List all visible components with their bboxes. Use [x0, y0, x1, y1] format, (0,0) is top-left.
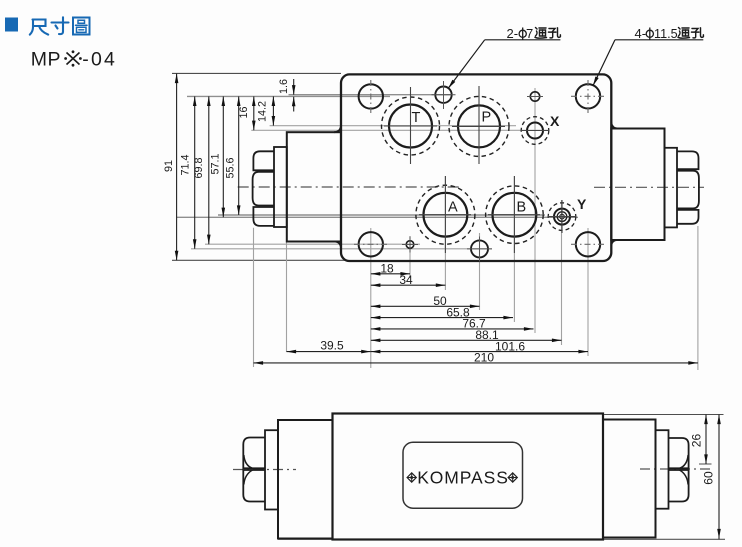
- right washer (side): [656, 430, 669, 509]
- svg-text:1.6: 1.6: [278, 79, 290, 94]
- nameplate diamond left: [407, 473, 416, 482]
- svg-text:50: 50: [433, 294, 447, 308]
- mounting hole bottom-left (φ11.5): [354, 232, 388, 256]
- label 2-φ7 through hole: [448, 26, 560, 89]
- centerline left (dash-dot, top view): [238, 186, 460, 188]
- arrowheads for left dimensions: [175, 74, 296, 261]
- extension lines (vertical, grey) for hole/port columns: [254, 88, 698, 370]
- dimension lines 18 / 34 / 50 / 65.8 / 76.7 / 88.1 / 101.6 / 39.5 / 210: [254, 274, 698, 363]
- dim 18 arrows: [371, 272, 381, 276]
- svg-text:57.1: 57.1: [210, 153, 222, 174]
- KOMPASS nameplate: [403, 442, 523, 508]
- pilot hole top small: [527, 92, 543, 101]
- title blue square marker: [5, 18, 18, 32]
- svg-text:T: T: [412, 110, 421, 126]
- svg-text:MP: MP: [31, 49, 61, 71]
- svg-text:-04: -04: [82, 49, 117, 71]
- label 4-φ11.5 through hole: [593, 26, 704, 86]
- right hex nut (side) band 1: [669, 438, 689, 468]
- dim 210 arrows: [254, 361, 264, 365]
- right hex nut (side) band 2: [669, 470, 689, 502]
- left hex nut band 1: [253, 151, 274, 170]
- model label MP※-04: [31, 49, 117, 71]
- dim 60: [702, 415, 721, 540]
- svg-text:KOMPASS: KOMPASS: [417, 468, 509, 488]
- body-block fillet top-right: [611, 123, 618, 129]
- left hex nut band 3: [253, 207, 274, 226]
- through hole φ7 bottom: [467, 237, 492, 262]
- dim 26: [690, 415, 708, 465]
- dim 50 arrows: [371, 305, 381, 309]
- arrowheads for bottom dimensions: [254, 272, 698, 365]
- svg-text:71.4: 71.4: [180, 154, 192, 175]
- left washer (side): [265, 430, 278, 509]
- centerline left: [233, 469, 296, 471]
- mounting hole top-right (φ11.5): [571, 80, 605, 113]
- port T: [382, 87, 440, 164]
- extension lines (horizontal, grey) for port rows: [177, 95, 578, 249]
- dim 76.7 arrows: [371, 327, 381, 331]
- port X: [521, 113, 560, 144]
- dim 65.8 arrows: [371, 316, 381, 320]
- dim 71.4 arrows: [193, 96, 197, 106]
- left hex chamfer arcs: [244, 455, 253, 485]
- svg-text:55.6: 55.6: [225, 157, 237, 178]
- svg-text:60: 60: [702, 471, 716, 485]
- svg-text:Y: Y: [577, 196, 587, 212]
- left hex nut (side) band 2: [243, 470, 265, 502]
- dim 55.6 arrows: [237, 96, 241, 106]
- dim 16 arrows: [252, 96, 256, 106]
- dim 39.5 arrows: [287, 350, 297, 354]
- dim 14.2 arrows: [272, 96, 276, 106]
- ext line top right: [604, 414, 724, 416]
- main body (side): [333, 414, 604, 540]
- svg-text:16: 16: [238, 106, 250, 118]
- svg-text:7: 7: [526, 26, 533, 41]
- glyph 通: [678, 28, 690, 39]
- svg-text:X: X: [550, 113, 560, 129]
- svg-text:69.8: 69.8: [193, 157, 205, 178]
- left washer plate: [274, 147, 287, 227]
- svg-text:39.5: 39.5: [320, 339, 344, 353]
- svg-text:2-: 2-: [507, 26, 519, 41]
- dim 88.1 arrows: [371, 339, 381, 343]
- mounting hole top-left (φ11.5): [359, 80, 383, 113]
- left solenoid block (side): [278, 420, 333, 539]
- dim 57.1 arrows: [222, 96, 226, 106]
- left hex nut (side) band 1: [243, 438, 265, 469]
- glyph 孔: [692, 28, 704, 38]
- svg-text:P: P: [482, 110, 492, 126]
- reference mark ※ glyph: [64, 50, 82, 66]
- svg-text:B: B: [517, 199, 527, 215]
- right hex nut band 3: [677, 210, 699, 224]
- port P: [449, 86, 509, 164]
- right end block: [611, 129, 664, 241]
- svg-text:4-: 4-: [635, 26, 647, 41]
- svg-text:101.6: 101.6: [495, 339, 525, 353]
- dim 101.6 arrows: [371, 350, 381, 354]
- svg-text:34: 34: [399, 273, 413, 287]
- dim 1.6 arrows: [292, 85, 296, 95]
- left end block: [287, 132, 341, 241]
- title text 尺寸圖 (dimension drawing): [30, 17, 90, 34]
- body-block fillet bottom-right: [611, 240, 618, 246]
- glyph 通: [535, 28, 547, 39]
- nameplate diamond right: [508, 473, 517, 482]
- ext tick for 26: [699, 463, 712, 465]
- dimension lines 91 / 71.4 / 69.8 / 57.1 / 55.6 / 16 / 14.2 / 1.6: [177, 74, 294, 261]
- right washer plate: [665, 148, 678, 228]
- through hole φ7 top: [432, 81, 456, 109]
- dim 69.8 arrows: [207, 96, 211, 106]
- svg-text:11.5: 11.5: [654, 27, 678, 41]
- body-block fillet top-left: [334, 126, 341, 133]
- port Y: [548, 196, 587, 233]
- centerline right: [640, 468, 714, 470]
- svg-text:A: A: [448, 199, 458, 215]
- port B: [486, 176, 544, 253]
- svg-text:18: 18: [380, 262, 394, 276]
- valve main body (top view): [341, 74, 611, 261]
- pilot hole bottom small: [402, 237, 418, 253]
- svg-text:91: 91: [163, 160, 175, 172]
- port A: [416, 176, 475, 253]
- right hex nut band 2: [677, 171, 699, 209]
- right hex chamfer arcs: [680, 455, 689, 485]
- svg-text:26: 26: [690, 434, 704, 448]
- right hex nut band 1: [677, 151, 699, 169]
- dim 34 arrows: [371, 283, 381, 287]
- svg-text:14.2: 14.2: [257, 101, 269, 122]
- centerline right (dash-dot, top view): [594, 186, 704, 188]
- svg-text:210: 210: [474, 351, 494, 365]
- body-block fillet bottom-left: [334, 242, 341, 249]
- glyph 孔: [549, 28, 561, 38]
- mounting hole bottom-right (φ11.5): [571, 232, 605, 256]
- extension lines (horizontal, dark) body top and bottom edges: [172, 73, 347, 260]
- baseline: [278, 538, 725, 540]
- dim 91 arrows: [175, 74, 179, 84]
- right solenoid block (side): [603, 420, 656, 538]
- left hex nut band 2: [253, 172, 274, 206]
